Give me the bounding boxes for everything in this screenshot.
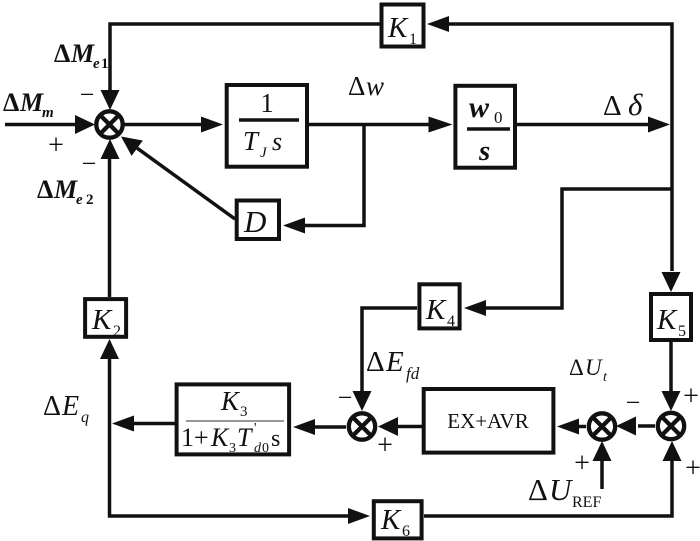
svg-text:': ' [254, 421, 257, 436]
svg-text:1: 1 [101, 56, 109, 72]
svg-text:Δ: Δ [603, 90, 622, 122]
block K6 [374, 501, 422, 538]
svg-text:s: s [478, 135, 490, 167]
svg-text:K: K [220, 386, 241, 416]
svg-text:EX+AVR: EX+AVR [447, 409, 528, 433]
wire K6 out to sum4 [424, 460, 672, 516]
svg-text:4: 4 [447, 313, 455, 330]
svg-text:w: w [469, 91, 490, 124]
arrow into sum4 top [662, 391, 681, 411]
svg-text:s: s [271, 426, 280, 452]
svg-text:e: e [76, 192, 83, 208]
svg-text:+: + [685, 453, 700, 484]
svg-text:Δ: Δ [569, 355, 584, 380]
block K5 [651, 294, 691, 340]
svg-text:6: 6 [402, 523, 410, 540]
svg-text:K: K [91, 304, 113, 336]
arrow into K5 top [662, 272, 681, 292]
wire main input [5, 123, 76, 127]
svg-text:REF: REF [572, 494, 601, 511]
arrow into sum1 bottom [101, 139, 120, 159]
svg-text:M: M [53, 175, 78, 204]
svg-text:2: 2 [86, 192, 94, 208]
svg-text:E: E [385, 346, 404, 378]
svg-text:w: w [366, 71, 384, 101]
fraction bar w0 [467, 127, 510, 131]
arrow into sum2 right [378, 417, 398, 436]
wire top feedback right [449, 24, 672, 271]
svg-text:D: D [243, 204, 266, 239]
svg-text:E: E [61, 391, 79, 422]
svg-text:K: K [210, 423, 230, 452]
svg-text:K: K [380, 504, 402, 536]
svg-text:−: − [80, 80, 95, 109]
wire sum3 to EXAVR [579, 425, 586, 429]
wire sum1 to TJ block [124, 123, 203, 127]
svg-text:fd: fd [406, 364, 420, 383]
arrow K3 out into rail [112, 416, 134, 432]
svg-text:m: m [42, 105, 54, 121]
svg-text:+: + [574, 448, 590, 479]
wire branch to K4 [486, 189, 672, 308]
block EXAVR [424, 389, 554, 453]
svg-text:1: 1 [409, 31, 417, 48]
arrow into K4 right [464, 300, 486, 316]
svg-text:3: 3 [229, 441, 236, 456]
svg-text:−: − [626, 388, 641, 417]
block K1 [382, 5, 424, 47]
block K2 [85, 299, 126, 337]
svg-text:3: 3 [240, 404, 248, 420]
sum junction sum4 [658, 413, 684, 439]
wire K3 out to Eq rail [134, 422, 175, 426]
arrow into sum1 from top [101, 90, 120, 110]
arrow into K2 bottom [100, 339, 119, 359]
svg-text:Δ: Δ [366, 346, 385, 378]
svg-text:d: d [254, 441, 262, 456]
arrow into sum3 right [616, 417, 636, 436]
svg-text:Δ: Δ [528, 472, 548, 507]
wire K5 to sum4 [669, 342, 673, 392]
arrow into EXAVR right [557, 419, 579, 435]
svg-text:T: T [237, 423, 253, 452]
wire K2 to sum1 [108, 158, 112, 297]
svg-text:q: q [81, 409, 89, 426]
svg-text:M: M [19, 88, 44, 117]
fraction bar TJ [239, 118, 299, 122]
svg-text:e: e [93, 56, 100, 72]
svg-text:0: 0 [262, 441, 269, 456]
fraction bar K3 [186, 420, 284, 422]
wire K4 to sum2 [362, 308, 417, 392]
svg-text:Δ: Δ [348, 71, 365, 101]
block TJ [227, 85, 307, 167]
svg-text:δ: δ [628, 87, 643, 122]
svg-text:0: 0 [494, 108, 503, 127]
svg-text:+: + [377, 430, 393, 461]
arrow into sum2 top [353, 391, 372, 411]
svg-text:Δ: Δ [3, 88, 19, 117]
block w0 [455, 86, 515, 168]
svg-text:K: K [387, 12, 409, 44]
arrow into sum1 from left [75, 115, 95, 134]
svg-text:−: − [338, 383, 353, 412]
arrow into delta node [648, 117, 670, 133]
svg-text:K: K [425, 294, 447, 326]
arrow into TJ block [201, 117, 223, 133]
sum junction sum1 [96, 111, 122, 137]
svg-text:T: T [243, 126, 260, 156]
svg-text:K: K [656, 304, 678, 336]
wire Eq rail vertical [110, 358, 349, 516]
svg-text:+: + [683, 381, 699, 412]
arrow into K3 right [293, 419, 315, 435]
svg-text:5: 5 [678, 323, 686, 340]
block D [237, 201, 279, 240]
arrow into sum3 bottom [593, 441, 612, 461]
sum junction sum2 [349, 413, 375, 439]
svg-text:M: M [70, 39, 95, 68]
svg-text:2: 2 [113, 323, 121, 340]
svg-text:1+: 1+ [181, 423, 209, 452]
arrow into D right [283, 218, 305, 234]
arrow into sum4 bottom [663, 441, 682, 461]
wire top feedback left [110, 24, 380, 90]
svg-text:Δ: Δ [54, 39, 70, 68]
block K3 [177, 384, 290, 454]
wire w0 block to delta node [517, 123, 648, 127]
arrow into K6 left [348, 508, 370, 524]
svg-text:s: s [272, 127, 282, 156]
wire sum4 to sum3 [638, 424, 655, 428]
wire EXAVR to sum2 [397, 425, 422, 429]
svg-text:+: + [48, 130, 64, 161]
sum junction sum3 [589, 413, 615, 439]
block K4 [419, 284, 459, 328]
wire D diagonal to sum1 [137, 148, 235, 219]
arrow into K1 right [427, 16, 449, 32]
svg-text:U: U [585, 355, 603, 380]
wire TJ block to w0 block [309, 123, 430, 127]
wire sum2 to K3 [315, 425, 346, 429]
svg-text:U: U [549, 472, 574, 507]
wire takeoff down to D [305, 125, 364, 226]
arrow D diag into sum1 [121, 137, 143, 156]
svg-text:−: − [82, 149, 97, 178]
svg-text:Δ: Δ [37, 175, 53, 204]
svg-text:Δ: Δ [43, 391, 61, 422]
wire Uref input [600, 460, 604, 489]
svg-text:1: 1 [260, 88, 274, 118]
arrow into w0 block [429, 117, 453, 133]
